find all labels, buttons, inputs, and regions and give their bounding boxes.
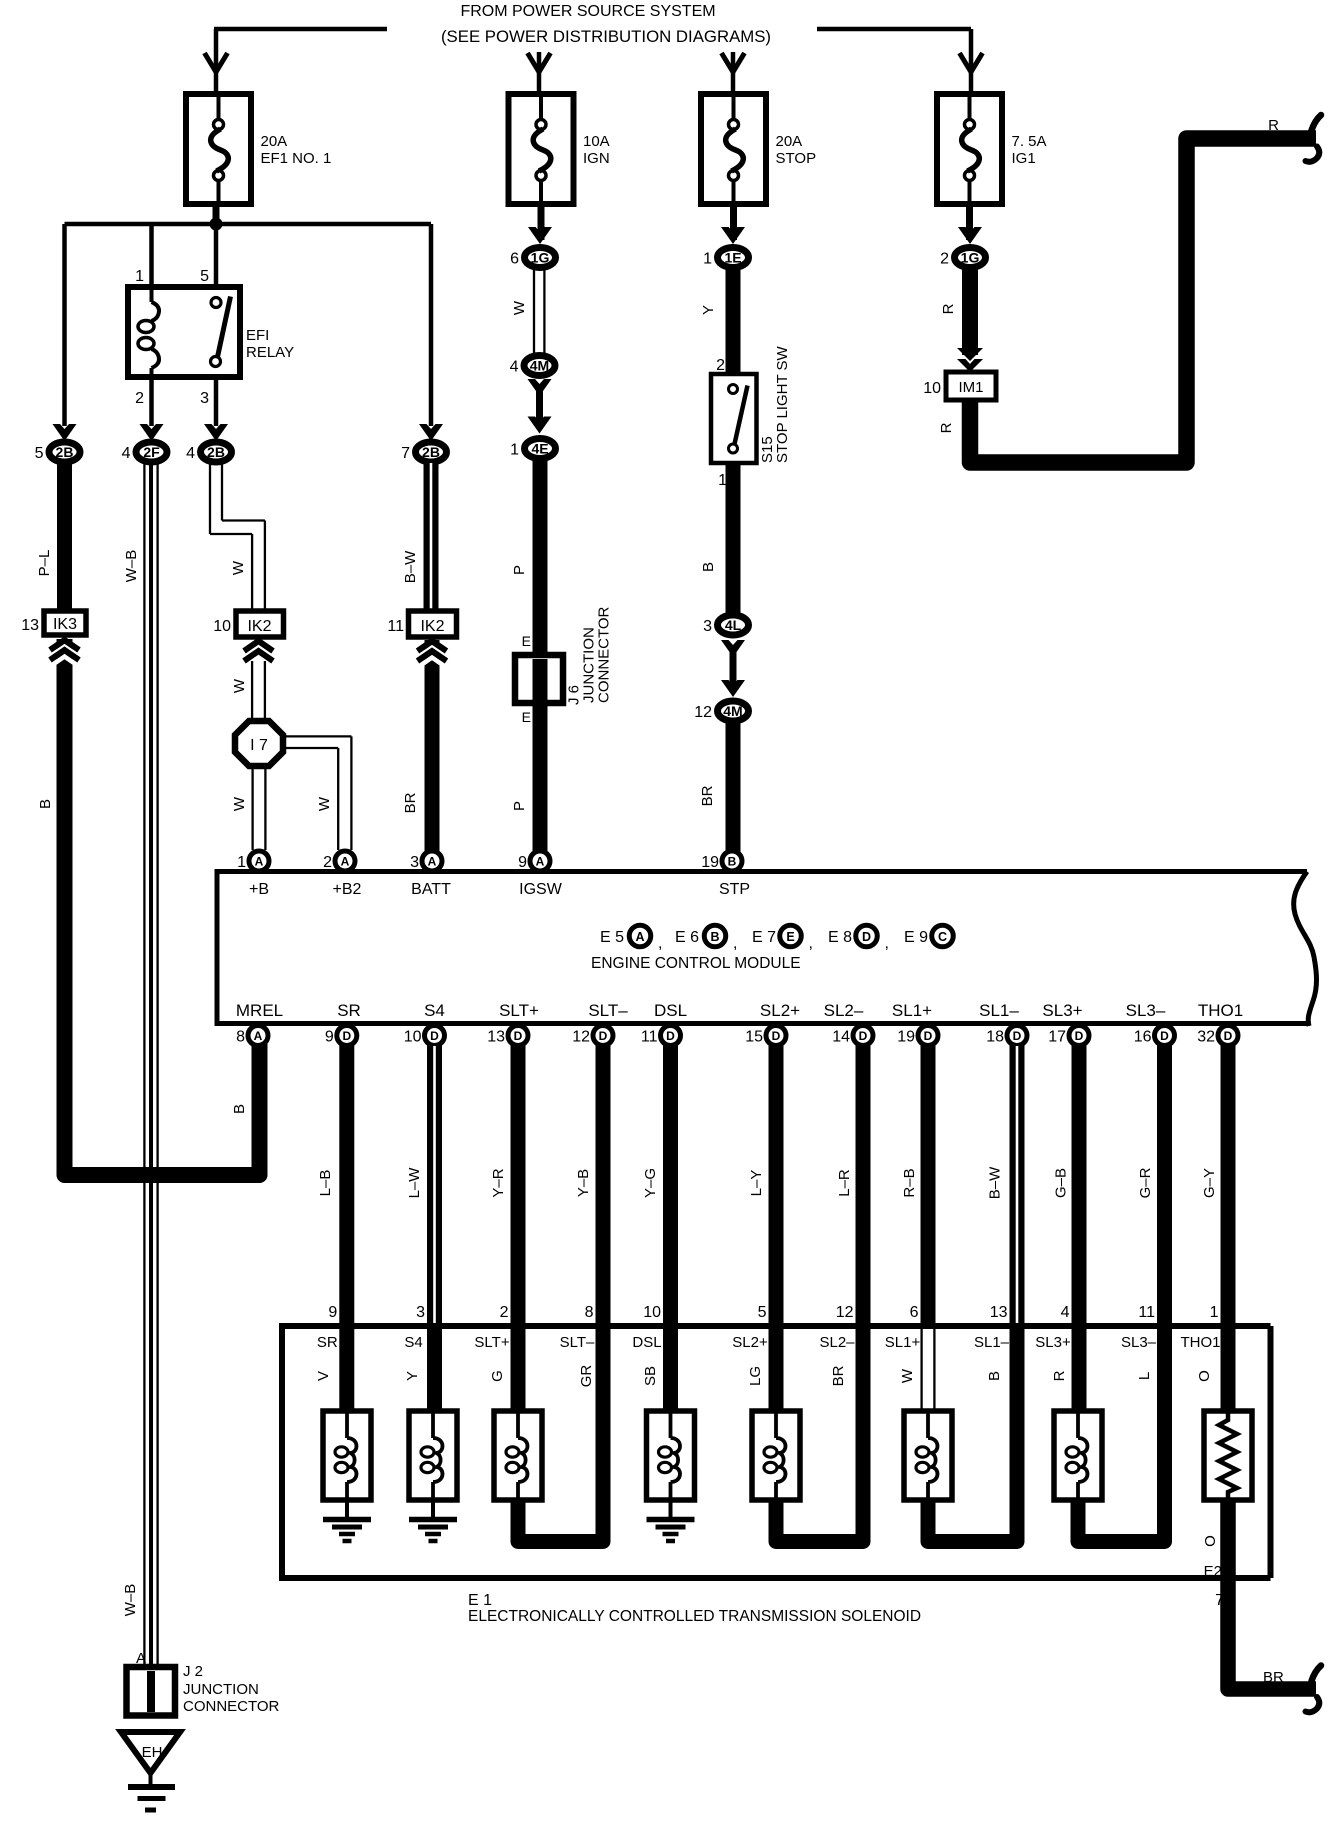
svg-text:4L: 4L: [725, 617, 742, 633]
svg-text:D: D: [514, 1029, 523, 1043]
svg-text:D: D: [599, 1029, 608, 1043]
svg-text:SLT–: SLT–: [588, 1001, 628, 1020]
svg-text:17: 17: [1048, 1029, 1066, 1046]
svg-text:G: G: [489, 1370, 506, 1382]
svg-text:C: C: [938, 930, 947, 944]
svg-text:16: 16: [1134, 1029, 1152, 1046]
svg-text:SL1+: SL1+: [885, 1334, 921, 1351]
svg-text:E 8: E 8: [828, 929, 852, 946]
svg-text:8: 8: [236, 1029, 245, 1046]
svg-text:V: V: [315, 1371, 332, 1381]
svg-text:10A: 10A: [583, 133, 610, 150]
svg-text:FROM POWER SOURCE SYSTEM: FROM POWER SOURCE SYSTEM: [460, 3, 715, 20]
svg-text:R: R: [938, 422, 955, 433]
svg-text:A: A: [341, 855, 350, 869]
svg-text:G–Y: G–Y: [1201, 1168, 1218, 1198]
svg-text:2B: 2B: [422, 444, 440, 460]
svg-text:3: 3: [703, 618, 712, 635]
svg-text:D: D: [924, 1029, 933, 1043]
svg-text:P: P: [511, 801, 528, 811]
svg-text:19: 19: [701, 854, 719, 871]
svg-text:Y–B: Y–B: [575, 1169, 592, 1197]
svg-text:1G: 1G: [961, 250, 980, 266]
svg-text:O: O: [1202, 1535, 1219, 1547]
svg-text:12: 12: [572, 1029, 590, 1046]
svg-text:W–B: W–B: [122, 1584, 139, 1617]
svg-text:IM1: IM1: [958, 379, 983, 396]
svg-text:E 5: E 5: [600, 929, 624, 946]
svg-text:STOP: STOP: [776, 150, 817, 167]
svg-text:J 2: J 2: [183, 1663, 203, 1680]
svg-text:9: 9: [325, 1029, 334, 1046]
svg-text:A: A: [635, 930, 644, 944]
svg-text:W: W: [231, 796, 248, 811]
svg-text:1: 1: [237, 854, 246, 871]
svg-text:13: 13: [21, 617, 39, 634]
svg-text:3: 3: [416, 1304, 425, 1321]
svg-text:EFI: EFI: [246, 327, 269, 344]
svg-text:E: E: [786, 930, 794, 944]
svg-text:THO1: THO1: [1180, 1334, 1220, 1351]
svg-text:B: B: [37, 799, 54, 809]
svg-text:R: R: [940, 303, 957, 314]
svg-text:1G: 1G: [531, 250, 550, 266]
svg-text:CONNECTOR: CONNECTOR: [596, 606, 613, 703]
svg-text:EF1 NO. 1: EF1 NO. 1: [261, 150, 332, 167]
svg-text:Y: Y: [700, 305, 717, 315]
svg-text:SLT+: SLT+: [499, 1001, 539, 1020]
svg-text:THO1: THO1: [1198, 1001, 1243, 1020]
svg-text:B: B: [986, 1371, 1003, 1381]
svg-text:W: W: [899, 1368, 916, 1383]
svg-text:E 7: E 7: [752, 929, 776, 946]
svg-text:O: O: [1196, 1370, 1213, 1382]
svg-text:SL2–: SL2–: [819, 1334, 855, 1351]
svg-text:5: 5: [35, 445, 44, 462]
svg-text:A: A: [536, 855, 545, 869]
svg-text:1: 1: [703, 251, 712, 268]
svg-text:IGSW: IGSW: [519, 881, 563, 898]
svg-text:10: 10: [404, 1029, 422, 1046]
svg-text:7. 5A: 7. 5A: [1012, 133, 1047, 150]
svg-text:BR: BR: [830, 1365, 847, 1386]
svg-text:BR: BR: [1263, 1669, 1284, 1686]
svg-text:11: 11: [387, 618, 404, 635]
svg-text:3: 3: [410, 854, 419, 871]
svg-text:E 9: E 9: [904, 929, 928, 946]
svg-text:SL2+: SL2+: [760, 1001, 800, 1020]
svg-text:ELECTRONICALLY CONTROLLED TRAN: ELECTRONICALLY CONTROLLED TRANSMISSION S…: [468, 1608, 921, 1625]
svg-text:4: 4: [1061, 1304, 1070, 1321]
svg-text:A: A: [254, 1029, 263, 1043]
svg-text:2: 2: [716, 357, 725, 374]
svg-text:L–B: L–B: [317, 1170, 334, 1197]
svg-text:B: B: [231, 1104, 248, 1114]
svg-text:SR: SR: [337, 1001, 361, 1020]
svg-text:8: 8: [585, 1304, 594, 1321]
svg-text:I 7: I 7: [250, 737, 268, 754]
svg-text:ENGINE CONTROL MODULE: ENGINE CONTROL MODULE: [591, 955, 801, 972]
svg-text:E 6: E 6: [675, 929, 699, 946]
svg-text:,: ,: [885, 935, 889, 952]
svg-text:19: 19: [897, 1029, 915, 1046]
svg-text:L–Y: L–Y: [748, 1170, 765, 1197]
svg-text:R: R: [1268, 117, 1279, 134]
svg-text:W: W: [511, 300, 528, 315]
svg-text:CONNECTOR: CONNECTOR: [183, 1698, 280, 1715]
svg-text:10: 10: [213, 618, 231, 635]
svg-text:SLT–: SLT–: [560, 1334, 595, 1351]
svg-text:Y: Y: [404, 1371, 421, 1381]
svg-text:4M: 4M: [723, 703, 742, 719]
svg-text:9: 9: [328, 1304, 337, 1321]
svg-text:3: 3: [200, 390, 209, 407]
svg-text:7: 7: [401, 445, 410, 462]
svg-text:10: 10: [643, 1304, 661, 1321]
svg-text:18: 18: [986, 1029, 1004, 1046]
svg-text:6: 6: [910, 1304, 919, 1321]
svg-text:4: 4: [510, 359, 519, 376]
svg-text:13: 13: [487, 1029, 505, 1046]
svg-text:R–B: R–B: [901, 1168, 918, 1197]
svg-text:W: W: [230, 560, 247, 575]
svg-text:SL1–: SL1–: [974, 1334, 1010, 1351]
svg-text:7: 7: [1215, 1592, 1224, 1609]
svg-text:D: D: [666, 1029, 675, 1043]
svg-text:STP: STP: [719, 881, 750, 898]
svg-text:D: D: [1160, 1029, 1169, 1043]
svg-text:SL3+: SL3+: [1035, 1334, 1071, 1351]
svg-text:LG: LG: [747, 1366, 764, 1386]
svg-text:B: B: [700, 562, 717, 572]
svg-text:+B2: +B2: [333, 881, 362, 898]
svg-text:,: ,: [733, 935, 737, 952]
svg-text:1: 1: [135, 268, 144, 285]
svg-text:IG1: IG1: [1012, 150, 1036, 167]
svg-text:20A: 20A: [261, 133, 288, 150]
svg-text:4: 4: [122, 445, 131, 462]
svg-text:EH: EH: [142, 1744, 163, 1761]
svg-text:D: D: [772, 1029, 781, 1043]
svg-text:E 1: E 1: [468, 1592, 492, 1609]
svg-text:E2: E2: [1204, 1563, 1222, 1580]
svg-text:B: B: [728, 855, 737, 869]
svg-text:G–R: G–R: [1137, 1167, 1154, 1198]
svg-text:MREL: MREL: [236, 1001, 283, 1020]
svg-text:5: 5: [200, 268, 209, 285]
svg-text:D: D: [1075, 1029, 1084, 1043]
svg-text:W–B: W–B: [123, 550, 140, 583]
svg-text:,: ,: [658, 935, 662, 952]
svg-text:13: 13: [990, 1304, 1008, 1321]
svg-text:IGN: IGN: [583, 150, 610, 167]
svg-text:IK2: IK2: [247, 618, 271, 635]
svg-text:D: D: [430, 1029, 439, 1043]
svg-text:S4: S4: [424, 1001, 445, 1020]
svg-text:IK2: IK2: [420, 618, 444, 635]
svg-text:L–R: L–R: [836, 1169, 853, 1197]
svg-text:STOP LIGHT SW: STOP LIGHT SW: [774, 345, 791, 463]
svg-text:SB: SB: [642, 1366, 659, 1386]
svg-text:+B: +B: [249, 881, 269, 898]
svg-text:JUNCTION: JUNCTION: [183, 1681, 259, 1698]
svg-text:Y–G: Y–G: [642, 1168, 659, 1198]
svg-text:2: 2: [940, 251, 949, 268]
svg-text:5: 5: [758, 1304, 767, 1321]
svg-text:12: 12: [836, 1304, 854, 1321]
svg-text:BR: BR: [699, 785, 716, 806]
svg-text:Y–R: Y–R: [490, 1168, 507, 1197]
svg-text:D: D: [862, 930, 871, 944]
svg-text:SR: SR: [317, 1334, 338, 1351]
svg-text:D: D: [1013, 1029, 1022, 1043]
svg-text:SL3+: SL3+: [1042, 1001, 1082, 1020]
svg-text:,: ,: [809, 935, 813, 952]
svg-text:20A: 20A: [776, 133, 803, 150]
svg-text:P: P: [511, 565, 528, 575]
svg-text:14: 14: [832, 1029, 850, 1046]
svg-text:1: 1: [510, 442, 519, 459]
svg-text:DSL: DSL: [654, 1001, 687, 1020]
svg-text:A: A: [428, 855, 437, 869]
svg-text:9: 9: [518, 854, 527, 871]
svg-text:32: 32: [1197, 1029, 1215, 1046]
svg-text:SL2–: SL2–: [824, 1001, 864, 1020]
svg-text:1E: 1E: [724, 250, 741, 266]
svg-text:2: 2: [323, 854, 332, 871]
svg-text:L–W: L–W: [406, 1167, 423, 1199]
svg-text:G–B: G–B: [1053, 1168, 1070, 1198]
svg-text:P–L: P–L: [36, 550, 53, 577]
svg-text:R: R: [1051, 1370, 1068, 1381]
svg-text:2: 2: [135, 390, 144, 407]
svg-text:SLT+: SLT+: [474, 1334, 509, 1351]
svg-text:12: 12: [694, 704, 712, 721]
svg-text:GR: GR: [578, 1365, 595, 1388]
svg-text:B–W: B–W: [402, 550, 419, 583]
svg-text:15: 15: [745, 1029, 763, 1046]
svg-text:11: 11: [641, 1029, 658, 1046]
svg-text:BATT: BATT: [411, 881, 451, 898]
svg-text:W: W: [231, 678, 248, 693]
svg-text:6: 6: [510, 251, 519, 268]
svg-text:W: W: [316, 796, 333, 811]
svg-text:SL1–: SL1–: [979, 1001, 1019, 1020]
svg-text:4M: 4M: [530, 358, 549, 374]
svg-text:D: D: [1224, 1029, 1233, 1043]
svg-text:11: 11: [1138, 1304, 1155, 1321]
svg-text:1: 1: [1210, 1304, 1219, 1321]
svg-text:IK3: IK3: [53, 616, 77, 633]
svg-text:SL3–: SL3–: [1121, 1334, 1157, 1351]
svg-text:SL3–: SL3–: [1126, 1001, 1166, 1020]
svg-text:10: 10: [923, 380, 941, 397]
svg-text:2B: 2B: [56, 444, 74, 460]
svg-text:2: 2: [500, 1304, 509, 1321]
svg-text:SL2+: SL2+: [732, 1334, 768, 1351]
svg-text:4: 4: [186, 445, 195, 462]
svg-text:L: L: [1136, 1372, 1153, 1380]
svg-text:4E: 4E: [531, 441, 548, 457]
svg-text:E: E: [522, 709, 531, 725]
svg-text:B–W: B–W: [987, 1166, 1004, 1199]
svg-text:E: E: [522, 633, 531, 649]
svg-text:S4: S4: [404, 1334, 422, 1351]
svg-text:SL1+: SL1+: [892, 1001, 932, 1020]
svg-text:B: B: [710, 930, 719, 944]
svg-text:RELAY: RELAY: [246, 344, 294, 361]
svg-text:DSL: DSL: [632, 1334, 661, 1351]
svg-text:A: A: [255, 855, 264, 869]
svg-text:BR: BR: [402, 792, 419, 813]
svg-text:2B: 2B: [207, 444, 225, 460]
svg-text:D: D: [859, 1029, 868, 1043]
svg-text:(SEE POWER DISTRIBUTION DIAGRA: (SEE POWER DISTRIBUTION DIAGRAMS): [441, 27, 771, 46]
svg-text:2F: 2F: [143, 444, 160, 460]
svg-text:D: D: [342, 1029, 351, 1043]
